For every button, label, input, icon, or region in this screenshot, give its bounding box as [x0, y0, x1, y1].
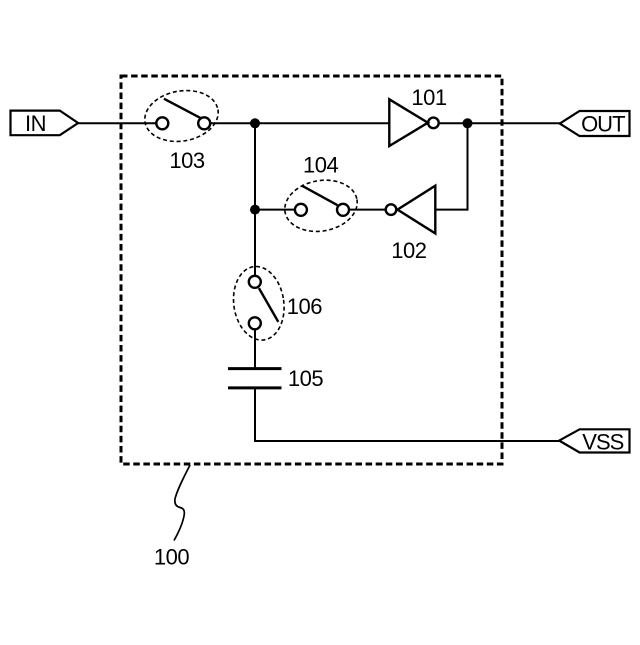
svg-text:104: 104 [303, 152, 338, 177]
svg-text:VSS: VSS [582, 429, 623, 454]
switch 104 [281, 175, 362, 237]
wire switch 103 to inverter 101 input [210, 122, 389, 124]
svg-text:OUT: OUT [581, 112, 625, 137]
inverter 101 [389, 99, 438, 146]
terminal IN [11, 111, 79, 136]
inverter 102 [386, 186, 436, 234]
label 104 [303, 152, 338, 177]
label 105 [288, 366, 323, 391]
wire switch 104 to inverter 102 bubble [349, 209, 385, 211]
dashed box 100 outline [121, 76, 502, 464]
wire capacitor 105 to VSS [255, 389, 560, 442]
lead line squiggle for 100 [174, 465, 190, 541]
label 100 [154, 545, 189, 570]
wire inverter 102 input feedback [435, 123, 467, 209]
svg-text:103: 103 [169, 148, 204, 173]
node B junction dot [250, 205, 260, 215]
label 101 [411, 85, 446, 110]
wire inverter 101 output to OUT [438, 122, 560, 124]
label 106 [287, 294, 322, 319]
capacitor 105 [228, 369, 282, 388]
wire switch 106 to capacitor 105 [254, 329, 256, 368]
svg-text:106: 106 [287, 294, 322, 319]
switch 103 [141, 85, 223, 147]
label 102 [391, 238, 426, 263]
svg-text:IN: IN [25, 111, 46, 136]
terminal VSS [559, 429, 629, 454]
node C junction dot [463, 118, 473, 128]
wire vertical node A down to switch 106 [254, 123, 256, 276]
node A junction dot [250, 118, 260, 128]
wire node B to switch 104 [255, 209, 295, 211]
terminal OUT [560, 111, 630, 137]
svg-text:100: 100 [154, 545, 189, 570]
svg-text:102: 102 [391, 238, 426, 263]
label 103 [169, 148, 204, 173]
svg-text:105: 105 [288, 366, 323, 391]
switch 106 [229, 263, 289, 343]
svg-text:101: 101 [411, 85, 446, 110]
wire IN to switch 103 [78, 122, 157, 124]
